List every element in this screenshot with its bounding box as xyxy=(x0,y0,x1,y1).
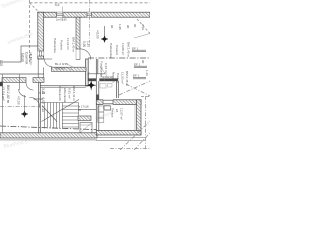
svg-text:6,00: 6,00 xyxy=(41,98,45,104)
room label Halo2 columns xyxy=(109,42,131,58)
window in top wall left xyxy=(57,12,64,17)
svg-text:2,19: 2,19 xyxy=(141,24,145,30)
svg-text:Terasz: Terasz xyxy=(111,108,115,118)
svg-text:Parkett: Parkett xyxy=(116,73,120,83)
sink fixture below opening xyxy=(104,105,111,110)
svg-text:8,91 m²: 8,91 m² xyxy=(68,88,72,99)
svg-text:lépcső: lépcső xyxy=(86,72,90,81)
door arc interior wall right room xyxy=(80,49,91,60)
interior wall vertical x76 xyxy=(76,17,80,49)
terrace edge lines below bottom wall xyxy=(96,137,145,139)
svg-text:190/210: 190/210 xyxy=(103,75,113,79)
kitchen top wall opening xyxy=(103,100,113,105)
svg-text:1,95: 1,95 xyxy=(118,24,122,30)
svg-text:90: 90 xyxy=(126,25,130,29)
bathroom dark wall bar xyxy=(88,78,96,81)
stairs left flight vertical treads xyxy=(40,103,78,129)
bottom wall outer line xyxy=(0,139,97,141)
wing door arc1 xyxy=(26,83,33,90)
stair diagonal second xyxy=(42,106,57,122)
left wing top wall line xyxy=(0,73,44,75)
roof dashed vertical line xyxy=(29,0,31,62)
level marker star mid (+0,00 second) xyxy=(86,80,96,90)
wing interior vertical line xyxy=(19,74,21,90)
window EF1 upper xyxy=(132,34,150,52)
dashed line right edge xyxy=(141,96,150,98)
leader diagonals near bathroom xyxy=(100,67,107,81)
roof dash diagonals bottom right xyxy=(110,81,150,150)
svg-text:1,20: 1,20 xyxy=(0,60,3,66)
svg-text:90/060: 90/060 xyxy=(56,67,66,71)
stair hall left wall double line xyxy=(38,82,40,132)
small dashdot left mid xyxy=(0,106,40,108)
right edge dim texts xyxy=(141,24,149,76)
svg-text:6,43 m²: 6,43 m² xyxy=(104,63,108,74)
interior wall continuation below door x76 xyxy=(86,59,89,86)
wing left edge line xyxy=(1,74,3,133)
svg-text:25: 25 xyxy=(78,108,82,112)
door arc bedroom left xyxy=(44,59,52,67)
svg-text:kőburkolat: kőburkolat xyxy=(63,88,67,102)
svg-text:Hálószoba: Hálószoba xyxy=(53,38,57,53)
dim row top right xyxy=(110,24,137,30)
svg-text:+3,00: +3,00 xyxy=(96,30,100,39)
room label Furdo xyxy=(100,61,109,78)
closet box bottom of hall xyxy=(80,123,92,134)
kitchen room top wall hatched xyxy=(96,100,141,105)
watermark text faint xyxy=(1,0,117,150)
roof dashed horizontal line xyxy=(30,2,151,4)
wall left band hatched xyxy=(38,12,44,59)
svg-text:BM 2,45 m: BM 2,45 m xyxy=(125,71,129,86)
stair diagonal walk line xyxy=(42,100,80,122)
bathroom right wall line xyxy=(116,81,118,98)
level marker star lower (+0,00) xyxy=(21,95,28,118)
svg-text:EF 1: EF 1 xyxy=(132,47,139,51)
svg-text:1,43: 1,43 xyxy=(145,70,149,76)
svg-text:kő: kő xyxy=(115,109,119,113)
kitchen room right wall hatched xyxy=(137,100,141,135)
stair opening top lines xyxy=(40,84,86,86)
wall mid horizontal bedroom bottom xyxy=(52,67,87,71)
roof hip dashed diagonal top-right xyxy=(137,19,150,34)
kitchen fixtures counter xyxy=(98,106,104,112)
door jamb dark piece left of kitchen xyxy=(96,95,99,103)
svg-text:Közlekedő: Közlekedő xyxy=(58,86,62,101)
svg-text:0,90: 0,90 xyxy=(82,41,86,47)
left wing step outline xyxy=(0,46,38,62)
section line dashdot lower xyxy=(0,126,96,130)
svg-text:BM 2,40 m: BM 2,40 m xyxy=(72,37,76,52)
bottom wall hatched band xyxy=(0,133,97,138)
svg-text:Parkett: Parkett xyxy=(115,45,119,55)
svg-text:11,02 m²: 11,02 m² xyxy=(66,38,70,50)
wing hatched wall band with door gap xyxy=(2,78,26,83)
kitchen room bottom wall hatched xyxy=(96,130,141,135)
window sill left edge dark xyxy=(0,82,3,86)
svg-text:BL 2 0/15: BL 2 0/15 xyxy=(55,62,68,66)
svg-text:13,88 m²: 13,88 m² xyxy=(121,43,125,55)
stairs right flight horizontal treads xyxy=(62,103,78,129)
svg-text:2,10: 2,10 xyxy=(41,106,45,112)
svg-text:EF 1: EF 1 xyxy=(134,62,141,66)
svg-text:BM 2,40 m: BM 2,40 m xyxy=(6,85,10,103)
landing line xyxy=(79,109,97,111)
svg-text:BL 1: BL 1 xyxy=(29,53,33,59)
window EF1 lower xyxy=(133,74,146,79)
svg-text:90: 90 xyxy=(110,25,114,29)
window in top wall mid xyxy=(87,12,92,17)
svg-text:+0,00: +0,00 xyxy=(17,96,21,105)
svg-text:90: 90 xyxy=(141,60,145,64)
svg-text:11,53 m²: 11,53 m² xyxy=(121,72,125,84)
svg-text:BM 2,45 m: BM 2,45 m xyxy=(127,42,131,57)
bathroom fixtures xyxy=(100,84,106,89)
svg-text:12,97 m²: 12,97 m² xyxy=(120,108,124,120)
window BL1 in left wall xyxy=(38,51,44,56)
room label kitchen xyxy=(111,108,124,120)
room label Halo1 columns xyxy=(53,37,76,53)
svg-text:2,10: 2,10 xyxy=(87,41,91,47)
leader lines BL2 xyxy=(66,64,75,71)
wing door arc2 xyxy=(19,89,26,96)
svg-text:EF 1: EF 1 xyxy=(133,74,140,78)
room label Nappali columns xyxy=(112,71,130,86)
bathroom left wall xyxy=(95,59,97,133)
bathroom top thin line xyxy=(88,73,105,75)
svg-text:60: 60 xyxy=(133,24,137,28)
interior wall door jamb lines xyxy=(76,59,80,61)
window EF1 mid xyxy=(134,62,147,67)
svg-text:13,04 m²: 13,04 m² xyxy=(1,86,5,101)
room label left 13,04 xyxy=(1,85,10,103)
svg-text:6,5: 6,5 xyxy=(55,3,60,7)
svg-text:3,10: 3,10 xyxy=(41,88,45,94)
section line dashdot upper right xyxy=(88,57,150,59)
vertical dash window centerline xyxy=(89,0,91,42)
svg-text:Parkett: Parkett xyxy=(60,40,64,50)
svg-text:BM 2,41 m: BM 2,41 m xyxy=(72,86,76,101)
level marker star upper (+3,00) xyxy=(101,26,108,43)
wall top band hatched xyxy=(38,12,150,17)
room label Udulo xyxy=(21,52,33,66)
svg-text:Hálószoba: Hálószoba xyxy=(109,43,113,58)
svg-text:Lief 0,90: Lief 0,90 xyxy=(56,17,67,21)
handrail hatched bar xyxy=(78,116,91,120)
roof hip dashed diagonal xyxy=(30,3,41,14)
hall door arc west xyxy=(30,97,40,107)
